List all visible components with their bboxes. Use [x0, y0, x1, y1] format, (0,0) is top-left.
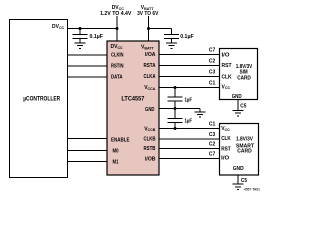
svg-text:I/OA: I/OA — [145, 52, 156, 58]
node junction DVCC cap tap — [79, 27, 82, 30]
svg-text:µCONTROLLER: µCONTROLLER — [23, 95, 60, 102]
svg-text:C2: C2 — [209, 58, 216, 64]
ground at chip GND pin — [199, 109, 201, 112]
wire I/OA to SIM pin C7 — [159, 54, 220, 56]
ground for VBATT cap — [166, 42, 177, 44]
capacitor 0.1uF on VBATT — [171, 29, 173, 35]
svg-text:I/OB: I/OB — [145, 156, 156, 162]
SIM card box — [220, 49, 258, 101]
svg-text:RSTA: RSTA — [144, 63, 156, 69]
svg-text:M0: M0 — [113, 148, 119, 154]
wire I/OB to SMART pin C7 — [159, 158, 220, 160]
svg-text:C3: C3 — [209, 69, 216, 75]
ground for SIM — [233, 110, 244, 112]
wire VCCB to SMART pin C1 — [159, 128, 220, 130]
svg-text:CARD: CARD — [237, 75, 251, 81]
wire M1 — [68, 161, 108, 163]
svg-text:CLK: CLK — [221, 136, 231, 142]
wire M0 — [68, 150, 108, 152]
capacitor 1uF on VCCA — [174, 88, 176, 98]
svg-text:GND: GND — [145, 107, 155, 113]
node junction VCCA cap — [174, 86, 177, 89]
svg-text:1µF: 1µF — [185, 97, 193, 103]
wire CLKB to SMART pin C3 — [159, 138, 220, 140]
wire RSTA to SIM pin C2 — [159, 65, 220, 67]
svg-text:GND: GND — [232, 94, 242, 100]
svg-text:M1: M1 — [113, 160, 119, 166]
svg-text:I/O: I/O — [222, 52, 231, 58]
wire RSTIN — [68, 65, 108, 67]
wire DVCC horizontal — [68, 28, 118, 30]
svg-text:C3: C3 — [209, 132, 216, 138]
svg-text:0.1µF: 0.1µF — [180, 34, 194, 40]
svg-text:4557 TA01: 4557 TA01 — [244, 186, 261, 191]
svg-text:RSTIN: RSTIN — [111, 64, 124, 70]
svg-text:I/O: I/O — [221, 156, 230, 162]
svg-text:CLKB: CLKB — [144, 137, 156, 143]
svg-text:RST: RST — [222, 63, 233, 69]
svg-text:CLKIN: CLKIN — [111, 53, 124, 59]
svg-text:GND: GND — [233, 166, 244, 172]
svg-text:DATA: DATA — [111, 75, 123, 81]
wire DATA — [68, 76, 108, 78]
node junction DVCC drop — [116, 27, 119, 30]
wire VCCA to SIM pin C1 — [159, 87, 220, 89]
svg-text:1µF: 1µF — [185, 119, 193, 125]
SMART card box — [220, 124, 259, 176]
SIM GND stub and label C5 — [233, 100, 244, 116]
svg-text:C5: C5 — [241, 178, 247, 184]
svg-text:C2: C2 — [209, 141, 216, 147]
chip U1 LTC4557 body — [107, 41, 159, 175]
svg-text:CLKA: CLKA — [144, 74, 156, 80]
capacitor 1uF on VCCB — [174, 109, 176, 119]
svg-text:ENABLE: ENABLE — [111, 137, 130, 143]
microcontroller box — [10, 20, 68, 178]
wire ENABLE — [68, 138, 108, 140]
node junction VBATT drop — [147, 27, 150, 30]
svg-text:C1: C1 — [209, 121, 216, 127]
svg-text:C1: C1 — [209, 80, 216, 86]
svg-text:C7: C7 — [209, 151, 216, 157]
svg-text:CLK: CLK — [222, 74, 232, 80]
wire DVCC vertical — [116, 16, 118, 42]
wire CLKIN — [68, 54, 108, 56]
SMART GND stub and label C5 — [233, 175, 244, 189]
capacitor 0.1uF on DVCC — [79, 29, 81, 35]
svg-text:C5: C5 — [240, 103, 246, 109]
wire GND pin to ground — [159, 108, 201, 110]
wire VBATT to bypass cap — [149, 28, 172, 30]
svg-text:C7: C7 — [209, 47, 216, 53]
svg-text:0.1µF: 0.1µF — [90, 34, 104, 40]
svg-text:1.2V TO 4.4V: 1.2V TO 4.4V — [100, 11, 132, 17]
svg-text:1.8V/3V: 1.8V/3V — [236, 137, 254, 143]
svg-text:RST: RST — [221, 147, 231, 153]
svg-text:CARD: CARD — [237, 149, 252, 155]
wire RSTB to SMART pin C2 — [159, 148, 220, 150]
wire CLKA to SIM pin C3 — [159, 76, 220, 78]
node junction VCCB cap — [174, 127, 177, 130]
ground for DVCC cap — [75, 42, 86, 44]
svg-text:RSTB: RSTB — [144, 146, 156, 152]
ground for SMART card — [233, 183, 244, 185]
node junction GND cap — [174, 107, 177, 110]
svg-text:LTC4557: LTC4557 — [121, 95, 144, 102]
wire VBATT vertical — [148, 16, 150, 42]
